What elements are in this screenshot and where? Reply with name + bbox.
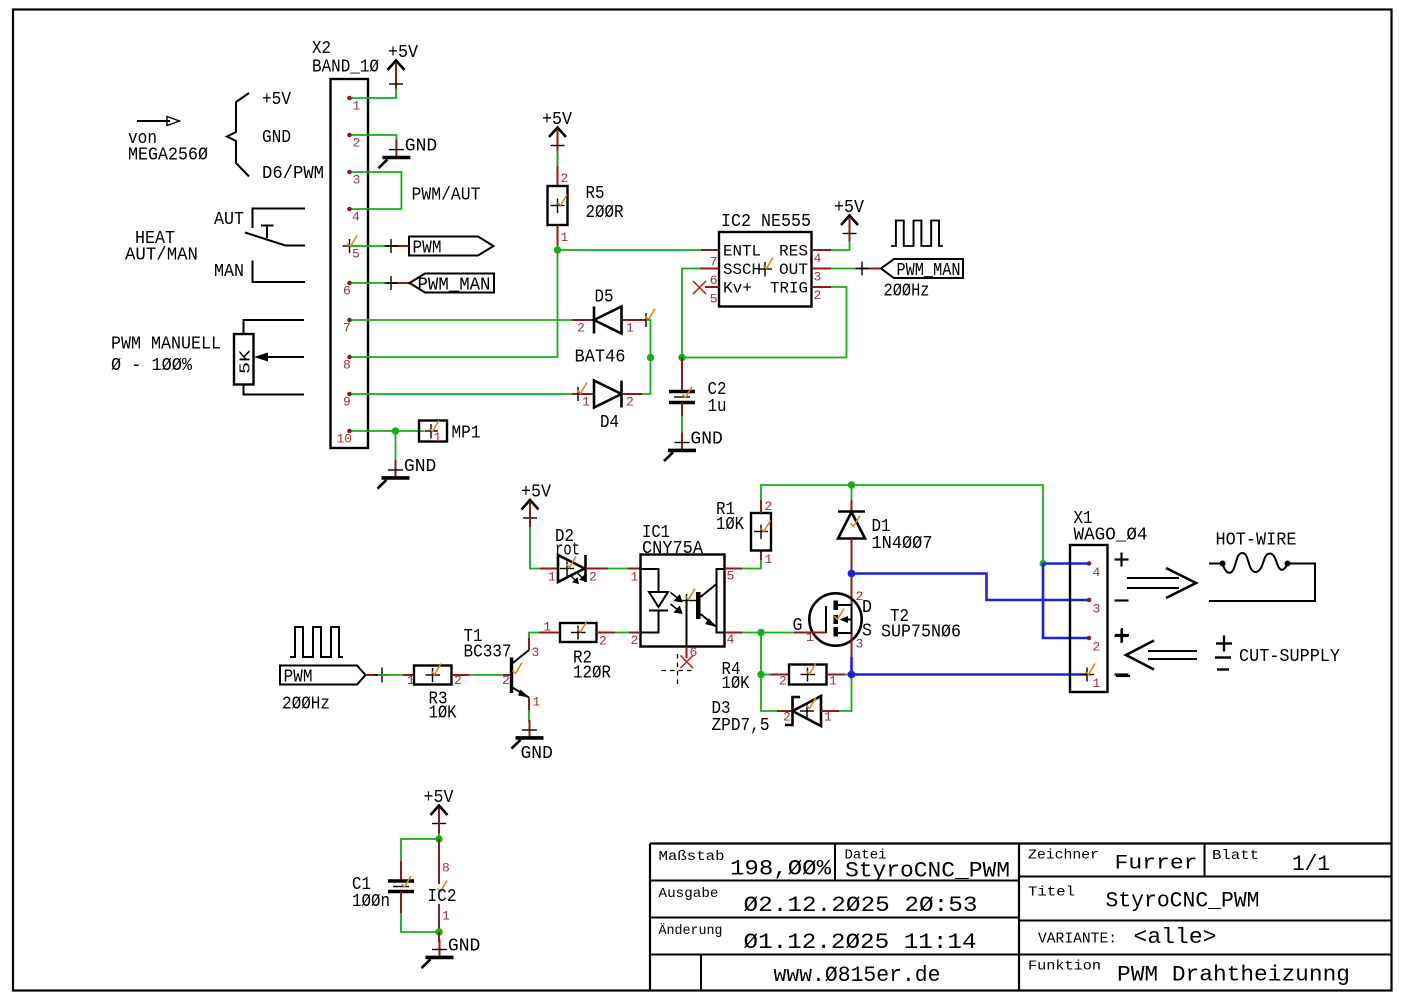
LED D2 rot	[548, 527, 597, 585]
junction blue source node	[848, 671, 856, 679]
X2 pin 2	[347, 133, 352, 138]
svg-text:3: 3	[1093, 602, 1101, 617]
measure point MP1	[419, 421, 481, 446]
svg-text:2: 2	[561, 171, 569, 186]
svg-text:3: 3	[532, 645, 540, 660]
svg-text:1u: 1u	[708, 397, 727, 417]
svg-text:D: D	[862, 598, 872, 618]
svg-text:5: 5	[352, 247, 360, 262]
svg-text:StyroCNC_PWM: StyroCNC_PWM	[1106, 889, 1260, 914]
svg-text:5K: 5K	[238, 350, 255, 374]
dashed cross below IC1	[662, 654, 695, 687]
svg-text:6: 6	[710, 273, 718, 288]
svg-text:4: 4	[352, 210, 360, 225]
junction R4 node	[757, 671, 764, 678]
svg-text:12ØR: 12ØR	[573, 664, 611, 684]
net flag PWM_MAN output	[881, 259, 963, 281]
svg-text:1: 1	[533, 695, 541, 710]
svg-text:GND: GND	[262, 128, 291, 148]
svg-text:10: 10	[337, 432, 353, 447]
svg-text:1: 1	[353, 99, 361, 114]
label von MEGA2560	[128, 129, 208, 166]
svg-text:7: 7	[343, 321, 351, 336]
svg-text:1: 1	[561, 230, 569, 245]
pulse symbol 200Hz at PWM_MAN	[891, 221, 943, 247]
svg-text:2: 2	[765, 499, 773, 514]
junction D1 top	[848, 481, 855, 488]
svg-text:PWM: PWM	[284, 668, 313, 688]
wire D3 up to source node	[839, 678, 852, 711]
svg-text:R5: R5	[586, 184, 605, 204]
wire R4 node down to D3	[761, 675, 777, 712]
wire R1 top to +5V rail	[761, 485, 1043, 561]
svg-text:PWM: PWM	[413, 239, 442, 259]
svg-text:3: 3	[814, 270, 822, 285]
wire D5 to junction	[646, 320, 651, 358]
wire R2 to IC1 pin2	[597, 632, 641, 634]
svg-text:AUT: AUT	[214, 210, 244, 230]
svg-text:Blatt: Blatt	[1212, 848, 1259, 864]
svg-text:TRIG: TRIG	[770, 280, 808, 298]
svg-text:+5V: +5V	[262, 90, 291, 110]
svg-text:Ø2.12.2Ø25 2Ø:53: Ø2.12.2Ø25 2Ø:53	[744, 893, 978, 918]
svg-text:1: 1	[626, 321, 634, 336]
svg-text:ENTL: ENTL	[723, 243, 761, 261]
svg-text:StyroCNC_PWM: StyroCNC_PWM	[845, 859, 1010, 884]
svg-text:1: 1	[442, 909, 450, 924]
svg-text:SSCH: SSCH	[723, 261, 761, 279]
diode D1 1N4007	[838, 485, 933, 570]
svg-text:+5V: +5V	[521, 483, 551, 503]
svg-text:Ø - 1ØØ%: Ø - 1ØØ%	[111, 356, 192, 376]
supply +5V at IC2 RES	[834, 198, 864, 242]
svg-text:IC2: IC2	[428, 887, 457, 907]
svg-text:WAGO_Ø4: WAGO_Ø4	[1074, 526, 1148, 546]
svg-text:1ØK: 1ØK	[716, 515, 744, 535]
junction D5/D4 node	[647, 354, 654, 361]
junction IC2 power bottom	[435, 928, 442, 935]
wire PWM flag to R3	[366, 668, 416, 689]
svg-text:9: 9	[343, 395, 351, 410]
IC2 power pins	[428, 839, 457, 932]
title block Datei cell	[845, 848, 1011, 884]
X1 pin 4	[1087, 561, 1092, 566]
svg-text:Ausgabe: Ausgabe	[659, 886, 719, 902]
wire X2-10 to MP1 and GND	[352, 431, 425, 461]
svg-text:1: 1	[1093, 676, 1101, 691]
svg-text:ZPD7,5: ZPD7,5	[712, 716, 770, 736]
supply +5V above R5	[542, 110, 572, 154]
svg-text:MAN: MAN	[214, 262, 244, 282]
svg-text:4: 4	[814, 251, 822, 266]
svg-text:2: 2	[814, 288, 822, 303]
label PWM MANUELL 0-100%	[111, 335, 221, 377]
svg-text:7: 7	[710, 255, 718, 270]
wire X2-5 to PWM flag	[352, 239, 410, 253]
svg-text:5: 5	[710, 292, 718, 307]
arrow to HOT-WIRE	[1127, 568, 1196, 598]
svg-text:<alle>: <alle>	[1134, 925, 1217, 950]
X1 pin 1	[1080, 664, 1101, 692]
ground GND below C2	[664, 430, 723, 462]
svg-text:Zeichner: Zeichner	[1028, 848, 1099, 864]
wire D2 to IC1 pin1	[586, 568, 641, 570]
svg-text:1: 1	[829, 674, 837, 689]
ground GND at X2 pin2	[378, 137, 437, 169]
wire +5V to junction	[438, 809, 440, 834]
resistor R3 10K	[414, 664, 462, 724]
ground GND below T1	[512, 720, 553, 764]
svg-text:2: 2	[631, 633, 639, 648]
svg-text:PWM Drahtheizunng: PWM Drahtheizunng	[1117, 963, 1350, 988]
diode D5 BAT46	[572, 288, 655, 368]
svg-text:2: 2	[783, 710, 791, 725]
svg-text:MP1: MP1	[452, 424, 481, 444]
X2 pin 10	[347, 429, 352, 434]
pulse symbol 200Hz at PWM input	[290, 627, 343, 657]
svg-text:1N4ØØ7: 1N4ØØ7	[872, 534, 933, 554]
wire blue to X1-2	[1043, 564, 1089, 639]
title block Massstab cell	[659, 849, 832, 882]
svg-text:198,ØØ%: 198,ØØ%	[730, 857, 832, 882]
potentiometer 5k	[234, 320, 304, 395]
svg-text:3: 3	[353, 173, 361, 188]
svg-text:8: 8	[343, 358, 351, 373]
svg-text:Titel: Titel	[1028, 885, 1075, 901]
svg-text:BAT46: BAT46	[575, 348, 626, 368]
svg-text:X2: X2	[312, 39, 331, 59]
title block frame	[650, 844, 1391, 991]
ground GND below X2-10	[378, 457, 437, 489]
svg-text:2: 2	[779, 674, 787, 689]
title block Blatt cell	[1212, 848, 1330, 877]
svg-text:1/1: 1/1	[1292, 852, 1330, 877]
resistor R2 120R	[560, 621, 611, 684]
net flag PWM input	[280, 666, 366, 688]
X2 pin 7	[347, 318, 352, 323]
svg-text:VARIANTE:: VARIANTE:	[1038, 931, 1117, 948]
svg-text:BC337: BC337	[464, 643, 512, 663]
connector X1 WAGO_04	[1070, 509, 1148, 692]
svg-text:CUT-SUPPLY: CUT-SUPPLY	[1239, 647, 1340, 667]
title block Variante cell	[1038, 925, 1217, 950]
wire IC2 OUT to PWM_MAN flag	[812, 262, 882, 276]
svg-text:+5V: +5V	[388, 43, 418, 63]
svg-text:1: 1	[548, 570, 556, 585]
svg-text:2ØØR: 2ØØR	[586, 203, 624, 223]
svg-text:3: 3	[856, 637, 864, 652]
svg-text:4: 4	[1093, 565, 1101, 580]
wire IC2 RES to +5V	[812, 240, 850, 250]
svg-text:1ØØn: 1ØØn	[352, 892, 390, 912]
svg-text:PWM MANUELL: PWM MANUELL	[111, 335, 221, 355]
svg-text:PWM_MAN: PWM_MAN	[897, 261, 961, 281]
wire +5V to R5	[557, 148, 559, 186]
svg-text:SUP75NØ6: SUP75NØ6	[881, 623, 961, 643]
junction gate node	[757, 629, 764, 636]
svg-text:4: 4	[727, 632, 735, 647]
battery symbol CUT-SUPPLY	[1215, 636, 1232, 670]
capacitor C2 1u	[669, 358, 727, 435]
capacitor C1 100n	[352, 839, 439, 932]
svg-text:Furrer: Furrer	[1115, 853, 1198, 876]
svg-text:1ØK: 1ØK	[722, 674, 750, 694]
polarity marks at X1	[1115, 553, 1129, 675]
svg-text:2: 2	[353, 136, 361, 151]
svg-text:5: 5	[727, 569, 735, 584]
X1 pin 3	[1087, 598, 1092, 603]
wire IC2 SSCH to C2 node	[682, 269, 719, 358]
svg-text:Ø1.12.2Ø25 11:14: Ø1.12.2Ø25 11:14	[744, 930, 977, 955]
ground GND below C1	[422, 937, 481, 969]
svg-text:2ØØHz: 2ØØHz	[282, 695, 330, 715]
svg-text:OUT: OUT	[779, 261, 808, 279]
supply +5V above D2	[521, 483, 551, 528]
X1 pin 2	[1087, 636, 1092, 641]
net flag PWM_MAN	[410, 274, 495, 296]
title block Zeichner cell	[1028, 848, 1198, 876]
polarity marks at arrow	[1115, 628, 1130, 676]
wire T1 collector to R2	[529, 620, 560, 651]
svg-text:S: S	[862, 622, 872, 642]
wire T1 emitter to GND	[528, 698, 530, 723]
svg-text:1ØK: 1ØK	[429, 704, 457, 724]
svg-text:2: 2	[1093, 640, 1101, 655]
wire X2-9 to D4	[352, 393, 573, 395]
svg-text:2: 2	[502, 673, 510, 688]
X2 pin 5	[343, 236, 360, 262]
X2 pin 3	[347, 170, 352, 175]
svg-text:2ØØHz: 2ØØHz	[884, 282, 930, 302]
wire X2-7 to D5	[352, 319, 573, 321]
transistor T1 BC337	[464, 627, 541, 710]
resistor R4 10K	[722, 660, 850, 694]
svg-text:Kv+: Kv+	[723, 280, 752, 298]
svg-text:2: 2	[599, 634, 607, 649]
svg-text:MEGA256Ø: MEGA256Ø	[128, 146, 208, 166]
wire X2-6 to PWM_MAN flag	[352, 276, 411, 290]
switch S1 HEAT AUT/MAN	[214, 209, 305, 283]
wire IC1 pin5 to R1	[725, 551, 762, 569]
svg-text:2: 2	[626, 395, 634, 410]
wire junction to GND	[438, 932, 440, 942]
svg-text:6: 6	[343, 284, 351, 299]
wire PWM/AUT loop X2-3 to X2-4	[352, 172, 402, 209]
X2 pin 8	[347, 355, 352, 360]
svg-text:PWM/AUT: PWM/AUT	[412, 186, 481, 206]
svg-text:CNY75A: CNY75A	[642, 539, 703, 559]
X2 pin 6	[347, 281, 352, 286]
net flag PWM	[409, 237, 494, 259]
op-amp IC2 NE555	[710, 212, 822, 307]
wire junction to IC2 ENTL	[558, 249, 720, 251]
junction C2 node	[678, 354, 685, 361]
svg-text:BAND_1Ø: BAND_1Ø	[312, 58, 379, 78]
X2 pin 1	[347, 96, 352, 101]
svg-text:1: 1	[434, 430, 442, 445]
svg-text:PWM_MAN: PWM_MAN	[418, 276, 491, 296]
junction blue drain node	[848, 570, 856, 578]
svg-text:www.Ø815er.de: www.Ø815er.de	[774, 963, 941, 988]
wire X2-8 to R5 node	[352, 250, 558, 357]
svg-text:1: 1	[543, 620, 551, 635]
supply +5V at X2 pin1	[388, 43, 419, 89]
wire X2-2 to GND	[352, 135, 397, 140]
svg-text:8: 8	[442, 861, 450, 876]
resistor R1 10K	[716, 499, 773, 567]
X2 pin 4	[347, 207, 352, 212]
arrow from MEGA2560	[137, 117, 180, 126]
IC1 pin 6 stub with X	[681, 647, 694, 669]
wire D4 to junction	[642, 358, 651, 395]
junction IC2 power top	[435, 835, 442, 842]
title block Funktion cell	[1028, 959, 1350, 988]
svg-text:Maßstab: Maßstab	[659, 849, 725, 865]
wire IC1 pin4 to T2 gate	[725, 632, 827, 634]
resistor R5	[548, 171, 624, 245]
svg-text:1: 1	[765, 552, 773, 567]
wire IC2 TRIG to C2 node	[684, 287, 847, 358]
svg-text:1: 1	[582, 395, 590, 410]
svg-text:2: 2	[577, 321, 585, 336]
junction at X2-10	[392, 427, 399, 434]
title block Ausgabe cell	[659, 886, 978, 918]
wire blue drain to X1-3	[852, 574, 1090, 601]
wire R5 to junction	[557, 225, 559, 250]
arrow from CUT-SUPPLY	[1126, 641, 1197, 670]
supply +5V above C1	[424, 788, 454, 832]
label HEAT AUT/MAN	[125, 229, 198, 266]
IC2 pin 5 Kv+ unconnected X	[693, 281, 719, 294]
optocoupler IC1 CNY75A	[631, 523, 735, 660]
wire R3 to T1 base	[452, 673, 512, 688]
X2 pin 9	[347, 392, 352, 397]
svg-text:AUT/MAN: AUT/MAN	[125, 246, 198, 266]
wire blue source to X1-1	[852, 673, 1088, 676]
svg-text:Funktion: Funktion	[1028, 959, 1101, 975]
brace	[227, 93, 249, 177]
svg-text:D5: D5	[595, 288, 614, 308]
transistor T2 SUP75N06	[793, 577, 962, 671]
wire gate node down to R4 node	[760, 633, 762, 675]
junction green/blue at X1	[1040, 560, 1047, 567]
wire +5V to D2	[530, 504, 558, 569]
svg-text:D4: D4	[600, 413, 619, 433]
svg-text:HOT-WIRE: HOT-WIRE	[1216, 531, 1297, 551]
zener diode D3 ZPD7,5	[712, 696, 840, 736]
wire blue to X1-4	[1043, 562, 1089, 565]
svg-text:RES: RES	[779, 243, 808, 261]
title block Titel cell	[1028, 885, 1260, 914]
svg-text:1: 1	[631, 570, 639, 585]
svg-text:2: 2	[589, 570, 597, 585]
hot wire element	[1209, 553, 1315, 601]
title block Aenderung cell	[659, 921, 977, 955]
connector X2 BAND_10	[312, 39, 379, 448]
svg-text:Änderung: Änderung	[659, 921, 723, 939]
svg-text:D6/PWM: D6/PWM	[262, 164, 324, 184]
junction R5 node	[554, 246, 561, 253]
svg-text:IC2 NE555: IC2 NE555	[721, 212, 811, 232]
diode D4	[572, 381, 642, 434]
wire X2-1 to +5V	[352, 89, 397, 99]
